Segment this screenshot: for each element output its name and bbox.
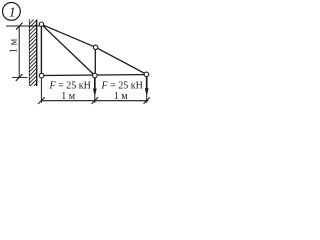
svg-text:F = 25 кН: F = 25 кН	[101, 80, 143, 91]
svg-text:1 м: 1 м	[61, 91, 76, 102]
svg-text:1 м: 1 м	[114, 91, 129, 102]
svg-text:1: 1	[9, 6, 16, 21]
svg-text:1 м: 1 м	[9, 38, 20, 53]
svg-text:F = 25 кН: F = 25 кН	[49, 80, 91, 91]
